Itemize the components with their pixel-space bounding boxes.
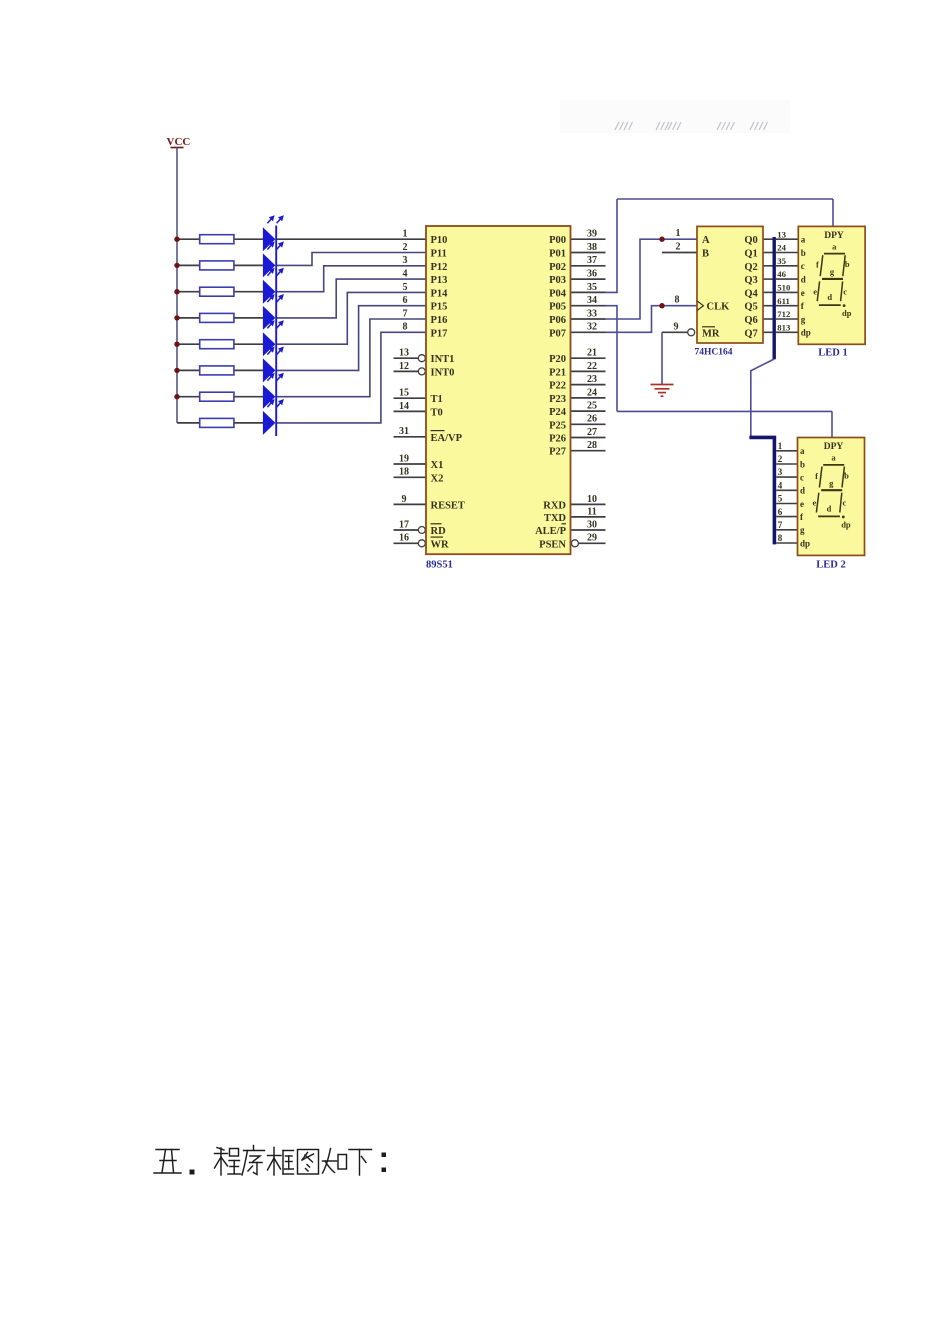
svg-text:35: 35 <box>587 282 597 293</box>
svg-text:P21: P21 <box>549 367 566 378</box>
svg-text:6: 6 <box>778 507 783 517</box>
svg-text:10: 10 <box>587 494 597 505</box>
svg-text:39: 39 <box>587 229 597 240</box>
svg-text:11: 11 <box>587 506 596 517</box>
svg-text:32: 32 <box>587 322 597 333</box>
svg-text:e: e <box>813 286 817 296</box>
svg-text:dp: dp <box>842 308 852 318</box>
svg-text:e: e <box>801 288 805 298</box>
svg-text:P23: P23 <box>549 394 566 405</box>
svg-text:MR: MR <box>702 328 720 339</box>
svg-text:813: 813 <box>777 322 791 332</box>
svg-text:35: 35 <box>777 256 786 266</box>
svg-text:7: 7 <box>403 308 408 319</box>
svg-text:19: 19 <box>399 453 409 464</box>
svg-text:b: b <box>800 459 805 469</box>
svg-text:34: 34 <box>587 295 597 306</box>
svg-text:LED 1: LED 1 <box>818 347 847 358</box>
svg-text:2: 2 <box>403 242 408 253</box>
svg-text:d: d <box>827 503 832 513</box>
svg-text:dp: dp <box>801 328 811 338</box>
svg-text:30: 30 <box>587 519 597 530</box>
svg-text:dp: dp <box>800 538 810 548</box>
svg-text:d: d <box>827 292 832 302</box>
svg-text:24: 24 <box>777 243 786 253</box>
svg-text:P25: P25 <box>549 420 566 431</box>
svg-text:VCC: VCC <box>167 136 191 148</box>
svg-text:DPY: DPY <box>824 231 844 241</box>
svg-text:ALE/P: ALE/P <box>535 526 567 537</box>
svg-text:25: 25 <box>587 401 597 412</box>
svg-text:LED 2: LED 2 <box>816 559 845 570</box>
svg-text:c: c <box>843 286 847 296</box>
svg-text:31: 31 <box>399 426 409 437</box>
svg-text:b: b <box>845 259 850 269</box>
svg-text:RXD: RXD <box>543 500 566 511</box>
svg-text:B: B <box>702 249 709 260</box>
svg-text:P27: P27 <box>549 447 566 458</box>
svg-text:3: 3 <box>403 255 408 266</box>
svg-text:P20: P20 <box>549 354 566 365</box>
svg-text:f: f <box>816 260 819 270</box>
svg-text:P12: P12 <box>431 262 448 273</box>
svg-text:18: 18 <box>399 467 409 478</box>
svg-text:Q2: Q2 <box>744 262 757 273</box>
svg-text:Q3: Q3 <box>744 275 757 286</box>
svg-text:23: 23 <box>587 374 597 385</box>
svg-text:21: 21 <box>587 348 597 359</box>
svg-text:d: d <box>800 486 805 496</box>
svg-text:7: 7 <box>778 520 783 530</box>
svg-text:f: f <box>815 471 818 481</box>
svg-text:1: 1 <box>403 229 408 240</box>
svg-text:g: g <box>801 314 806 324</box>
svg-text:P13: P13 <box>431 275 448 286</box>
svg-text:c: c <box>801 261 805 271</box>
svg-text:P10: P10 <box>431 235 448 246</box>
svg-text:RESET: RESET <box>431 500 465 511</box>
svg-text:EA/VP: EA/VP <box>431 433 463 444</box>
svg-text:36: 36 <box>587 269 597 280</box>
svg-text:5: 5 <box>778 494 783 504</box>
svg-text:26: 26 <box>587 414 597 425</box>
svg-text:4: 4 <box>403 269 408 280</box>
svg-text:14: 14 <box>399 401 409 412</box>
svg-text:13: 13 <box>399 348 409 359</box>
svg-text:P22: P22 <box>549 381 566 392</box>
svg-text:P11: P11 <box>431 249 447 260</box>
svg-text:9: 9 <box>402 494 407 505</box>
svg-text:611: 611 <box>777 296 790 306</box>
svg-text:16: 16 <box>399 533 409 544</box>
svg-text:P07: P07 <box>549 328 566 339</box>
svg-text:Q0: Q0 <box>744 235 757 246</box>
svg-text:15: 15 <box>399 388 409 399</box>
svg-text:P00: P00 <box>549 235 566 246</box>
svg-text:g: g <box>800 525 805 535</box>
svg-text:1: 1 <box>778 441 783 451</box>
svg-text:29: 29 <box>587 533 597 544</box>
svg-text:P05: P05 <box>549 302 566 313</box>
svg-text:P16: P16 <box>431 315 448 326</box>
svg-text:27: 27 <box>587 427 597 438</box>
svg-text:P02: P02 <box>549 262 566 273</box>
svg-text:Q6: Q6 <box>744 315 757 326</box>
svg-text:WR: WR <box>431 539 450 550</box>
svg-text:b: b <box>801 248 806 258</box>
svg-text:712: 712 <box>777 309 790 319</box>
svg-text:P01: P01 <box>549 249 566 260</box>
svg-text:P17: P17 <box>431 328 448 339</box>
svg-text:INT1: INT1 <box>431 354 455 365</box>
svg-text:8: 8 <box>675 295 680 306</box>
svg-text:P04: P04 <box>549 288 567 299</box>
svg-text:Q7: Q7 <box>744 328 757 339</box>
svg-text:A: A <box>702 235 710 246</box>
svg-text:89S51: 89S51 <box>426 560 453 571</box>
svg-text:dp: dp <box>841 520 851 530</box>
svg-text:33: 33 <box>587 308 597 319</box>
svg-text:2: 2 <box>778 454 783 464</box>
svg-text:P26: P26 <box>549 434 566 445</box>
svg-text:5: 5 <box>403 282 408 293</box>
svg-text:24: 24 <box>587 387 597 398</box>
svg-text:74HC164: 74HC164 <box>695 348 733 358</box>
svg-text:c: c <box>843 498 847 508</box>
svg-text:PSEN: PSEN <box>539 539 566 550</box>
svg-text:c: c <box>800 473 804 483</box>
svg-text:T1: T1 <box>431 394 443 405</box>
svg-text:RD: RD <box>431 526 447 537</box>
svg-text:46: 46 <box>777 269 786 279</box>
svg-text:3: 3 <box>778 467 783 477</box>
svg-text:X2: X2 <box>431 473 444 484</box>
svg-text:8: 8 <box>778 533 783 543</box>
svg-text:2: 2 <box>676 242 681 253</box>
svg-text:P14: P14 <box>431 288 449 299</box>
svg-text:P15: P15 <box>431 302 448 313</box>
svg-text:P03: P03 <box>549 275 566 286</box>
svg-text:e: e <box>813 498 817 508</box>
svg-text:6: 6 <box>403 295 408 306</box>
svg-text:a: a <box>800 446 805 456</box>
svg-text:g: g <box>829 478 834 488</box>
svg-text:Q4: Q4 <box>744 288 758 299</box>
svg-text:b: b <box>844 471 849 481</box>
svg-text:8: 8 <box>403 322 408 333</box>
svg-text:38: 38 <box>587 242 597 253</box>
svg-text:22: 22 <box>587 361 597 372</box>
svg-text:a: a <box>832 241 837 251</box>
svg-text:13: 13 <box>777 229 786 239</box>
svg-text:4: 4 <box>778 480 783 490</box>
svg-text:a: a <box>801 235 806 245</box>
svg-text:d: d <box>801 275 806 285</box>
svg-text:TXD: TXD <box>544 513 567 524</box>
svg-text:1: 1 <box>676 228 681 239</box>
svg-text:CLK: CLK <box>707 302 731 313</box>
svg-text:X1: X1 <box>431 460 444 471</box>
svg-text:510: 510 <box>777 283 791 293</box>
svg-text:28: 28 <box>587 440 597 451</box>
svg-text:37: 37 <box>587 255 597 266</box>
svg-text:T0: T0 <box>431 407 443 418</box>
svg-text:17: 17 <box>399 519 409 530</box>
svg-text:12: 12 <box>399 361 409 372</box>
svg-text:INT0: INT0 <box>431 367 455 378</box>
svg-text:Q1: Q1 <box>744 249 757 260</box>
svg-text:P24: P24 <box>549 407 567 418</box>
svg-text:Q5: Q5 <box>744 302 757 313</box>
svg-text:DPY: DPY <box>824 442 844 452</box>
svg-text:e: e <box>800 499 804 509</box>
svg-text:P06: P06 <box>549 315 566 326</box>
svg-text:9: 9 <box>674 321 679 332</box>
